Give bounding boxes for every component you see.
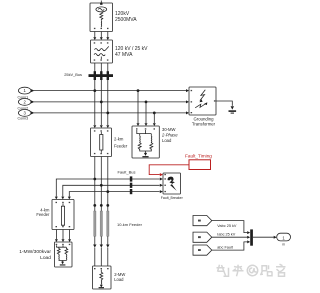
svg-text:Fault_Breaker: Fault_Breaker xyxy=(161,196,184,200)
junction fault bus phase B xyxy=(100,184,103,187)
label 2-MW Load xyxy=(114,272,125,282)
wire drop to 30-MW load pin A xyxy=(137,91,140,126)
wire 2-km feeder phase C down through fault bus xyxy=(107,157,109,206)
8-km feeder block U5 xyxy=(52,200,74,230)
wire transformer phase C to 25kV bus xyxy=(107,63,109,75)
svg-text:Fault_Bus: Fault_Bus xyxy=(117,170,135,175)
junction fault bus phase C xyxy=(106,190,109,193)
label 1-MW/300kvar Load xyxy=(19,249,51,261)
svg-text:Load: Load xyxy=(114,277,124,282)
wire 8-km feeder to 1-MW load pin A xyxy=(55,230,58,243)
svg-text:Feeder: Feeder xyxy=(36,212,50,217)
wire source phase C to transformer xyxy=(106,32,109,41)
watermark (light gray) xyxy=(217,264,286,276)
1-MW/300kvar load block U6 xyxy=(55,242,73,267)
mux bus creator xyxy=(250,229,253,245)
three-phase source U1 120kV 2500MVA xyxy=(90,1,113,32)
label 25kV_Bus xyxy=(64,72,82,77)
outport m xyxy=(277,233,291,246)
label 8-km Feeder xyxy=(36,207,50,217)
svg-text:2: 2 xyxy=(24,100,27,105)
distributed line 10-km feeder phase A xyxy=(93,204,96,266)
wire source phase B to transformer xyxy=(100,32,103,41)
junction bus-C on Conn3 wire xyxy=(106,112,109,115)
port Conn3 xyxy=(18,110,31,121)
junction bus-A on Conn1 wire xyxy=(93,89,96,92)
2-MW load block U7 xyxy=(93,266,112,289)
wire 8-km feeder to 1-MW load pin C xyxy=(68,230,71,243)
wire Conn3 to grounding transformer phase C xyxy=(31,111,189,114)
wire source phase A to transformer xyxy=(93,32,96,41)
label 120 kV / 25 kV 47 MVA xyxy=(115,46,148,58)
from tag Vabc xyxy=(193,216,212,226)
wire mux to outport m xyxy=(253,236,277,239)
label abc Fault xyxy=(217,245,234,249)
wire transformer phase B to 25kV bus xyxy=(100,63,102,75)
junction load-A on Conn1 wire xyxy=(137,89,140,92)
svg-text:m: m xyxy=(282,242,285,246)
wire tag Vabc to mux xyxy=(212,221,250,235)
svg-text:Fault_Timing: Fault_Timing xyxy=(185,153,212,158)
port Conn1 xyxy=(18,87,31,99)
wire drop to 30-MW load pin B xyxy=(145,102,148,126)
wire fault bus phase B to breaker xyxy=(61,184,163,200)
subsystem Fault_Timing (red) xyxy=(189,160,211,170)
node Fault_Bus tick A xyxy=(130,176,133,181)
port Conn2 xyxy=(18,99,31,111)
wire Conn2 to grounding transformer phase B xyxy=(31,100,189,103)
label Iabc 25 kV xyxy=(217,233,235,237)
svg-text:1: 1 xyxy=(282,235,285,240)
node 25kV_Bus bar xyxy=(89,71,114,80)
distributed line 10-km feeder phase C xyxy=(106,204,109,266)
svg-text:30-MW: 30-MW xyxy=(162,127,176,132)
svg-text:abc Fault: abc Fault xyxy=(217,245,234,249)
wire Conn1 to grounding transformer phase A xyxy=(31,89,189,92)
wire bus phase B down to 2-km feeder xyxy=(100,77,103,128)
svg-text:Grounding: Grounding xyxy=(193,116,214,121)
wire 8-km feeder to 1-MW load pin B xyxy=(62,230,65,243)
svg-text:1-MW/300kvar: 1-MW/300kvar xyxy=(19,249,51,255)
from tag Iabc xyxy=(193,232,212,242)
wire tag Iabc to mux xyxy=(212,236,250,239)
svg-text:47 MVA: 47 MVA xyxy=(115,52,133,58)
wire grounding transformer neutral to ground xyxy=(216,101,232,106)
svg-text:Load: Load xyxy=(162,138,172,143)
wire bus phase A down to 2-km feeder xyxy=(93,77,96,128)
svg-text:25kV_Bus: 25kV_Bus xyxy=(64,72,82,77)
svg-text:2-Phase: 2-Phase xyxy=(161,132,178,137)
wire drop to 30-MW load pin C xyxy=(153,113,156,126)
30-MW 2-phase load block U3 xyxy=(132,126,159,158)
junction load-B on Conn2 wire xyxy=(145,101,148,104)
wire fault bus phase C to breaker xyxy=(68,190,163,199)
label Grounding Transformer xyxy=(192,116,216,126)
label 2-km Feeder xyxy=(114,137,128,149)
label 30-MW 2-Phase Load xyxy=(161,127,178,143)
distributed line 10-km feeder phase B xyxy=(100,204,103,266)
wire Fault_Timing to breaker control (red) xyxy=(149,165,189,176)
from tag Fault xyxy=(193,245,212,255)
label 10-km Feeder xyxy=(117,222,143,227)
node Fault_Bus tick C xyxy=(130,189,133,194)
wire transformer phase A to 25kV bus xyxy=(94,63,96,75)
svg-text:2500MVA: 2500MVA xyxy=(115,17,137,23)
svg-text:Feeder: Feeder xyxy=(114,143,128,148)
svg-text:Conn3: Conn3 xyxy=(18,116,29,120)
svg-text:2-km: 2-km xyxy=(114,137,124,142)
wire bus phase C down to 2-km feeder xyxy=(106,77,109,128)
junction load-C on Conn3 wire xyxy=(153,112,156,115)
ground symbol G1 xyxy=(229,106,237,113)
junction bus-B on Conn2 wire xyxy=(100,101,103,104)
wire 2-km feeder phase A down through fault bus xyxy=(94,157,96,206)
breaker CB1 Fault_Breaker xyxy=(163,173,181,194)
label 120kV 2500MVA xyxy=(115,11,137,23)
2-km feeder block U4 xyxy=(91,128,112,157)
svg-text:10-km Feeder: 10-km Feeder xyxy=(117,222,143,227)
label Fault_Bus xyxy=(117,170,135,175)
junction fault bus phase A xyxy=(93,178,96,181)
wire tag Fault to mux xyxy=(212,240,250,250)
label Fault_Breaker xyxy=(161,196,184,200)
svg-text:Vabc 25 kV: Vabc 25 kV xyxy=(217,224,237,228)
node Fault_Bus tick B xyxy=(130,183,133,188)
label Vabc 25 kV xyxy=(217,224,237,228)
svg-text:3: 3 xyxy=(24,111,27,116)
svg-text:Transformer: Transformer xyxy=(192,122,216,127)
label Fault_Timing (red) xyxy=(185,153,212,158)
svg-text:Load: Load xyxy=(40,255,51,261)
svg-text:Iabc 25 kV: Iabc 25 kV xyxy=(217,233,235,237)
svg-text:1: 1 xyxy=(24,88,27,93)
wire 2-km feeder phase B down through fault bus xyxy=(100,157,102,206)
wire fault bus phase A to breaker xyxy=(55,178,163,200)
grounding transformer U2 xyxy=(189,87,216,115)
transformer T1 120kV/25kV 47MVA xyxy=(91,40,113,63)
